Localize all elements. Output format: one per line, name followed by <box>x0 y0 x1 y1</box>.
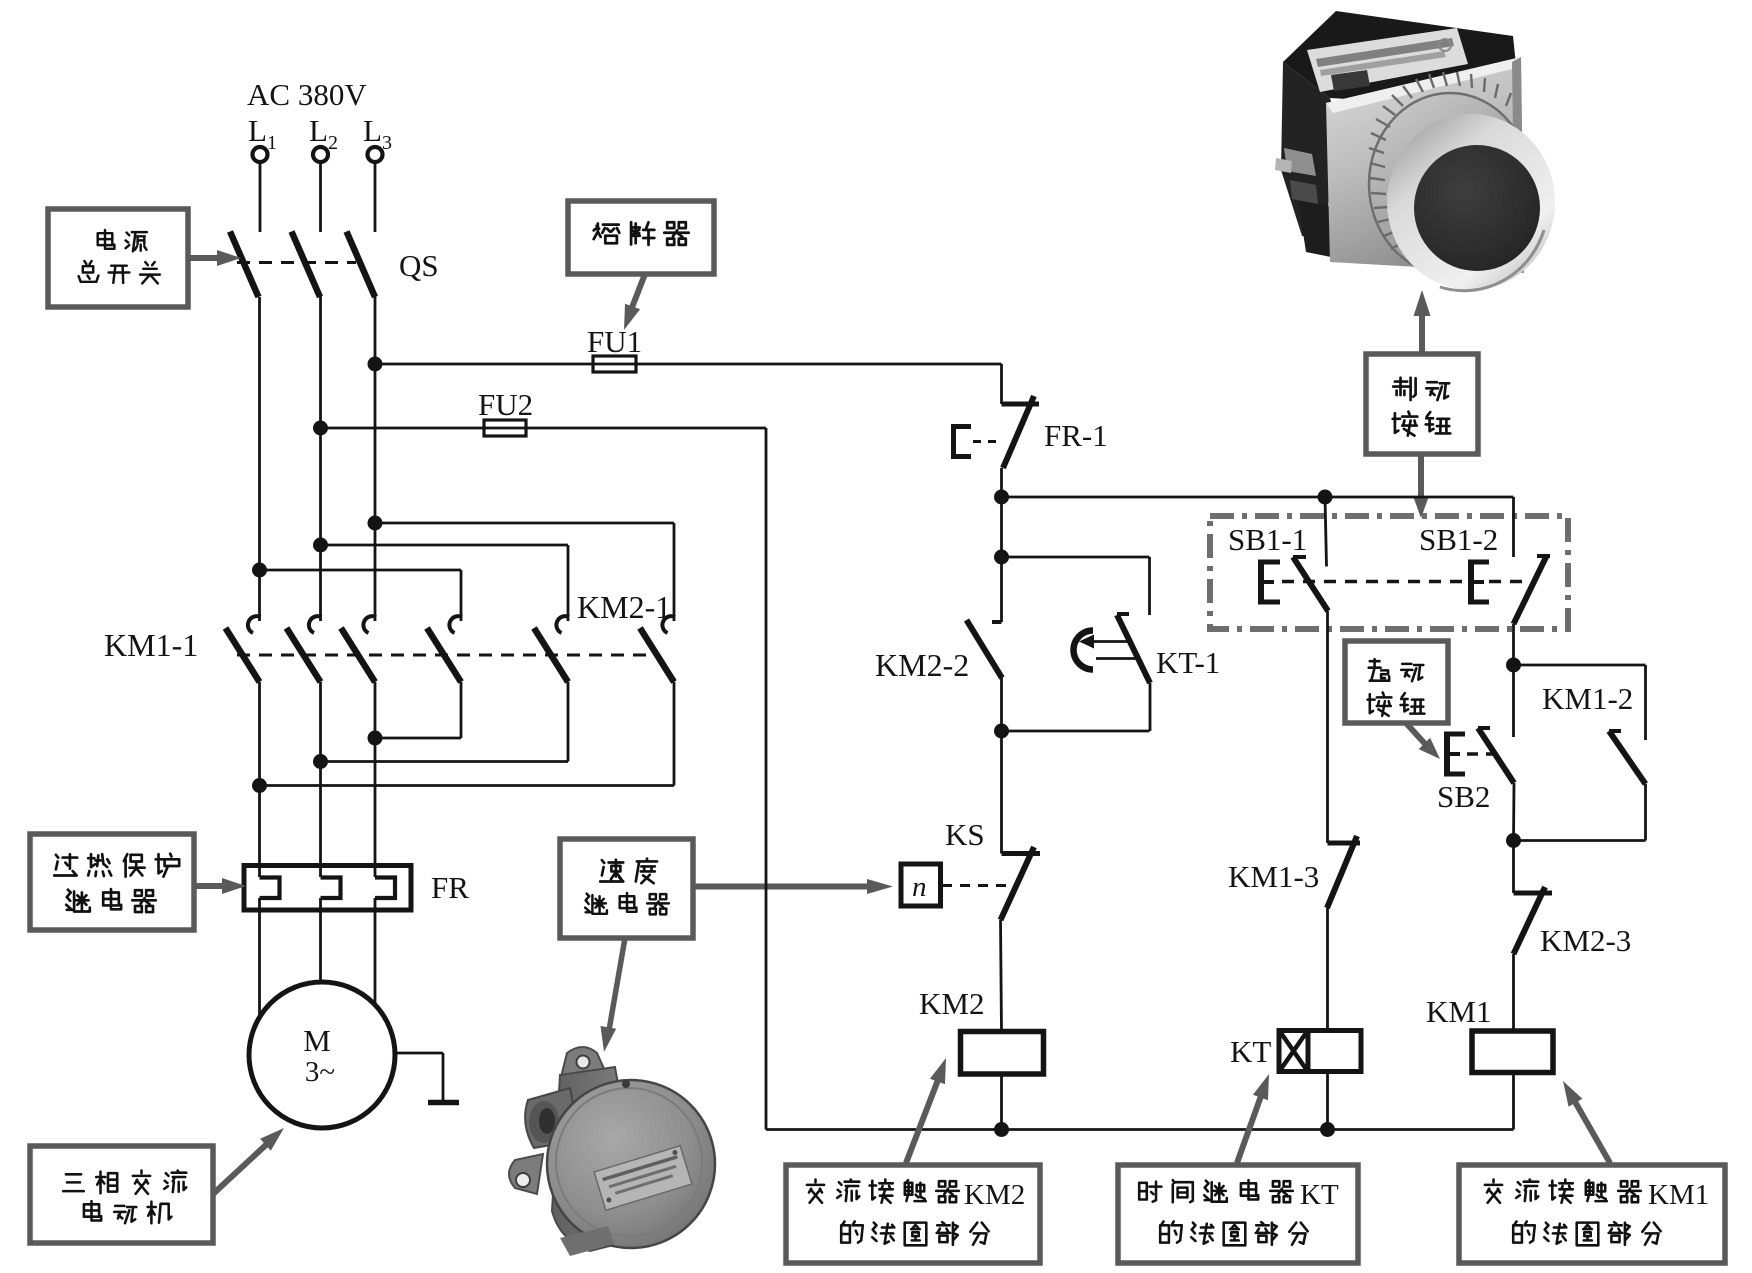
svg-text:n: n <box>912 871 927 903</box>
label box 制动按钮 (brake button) <box>1366 354 1478 454</box>
switch QS linkage dashed line <box>237 261 356 264</box>
wire L1 column KM1-1 to FR <box>258 682 261 866</box>
wire L3 column QS to KM1-1 <box>374 295 377 621</box>
junction KT-1 branch top <box>994 550 1009 565</box>
label box 熔断器 (fuse) <box>568 201 714 274</box>
svg-text:FR: FR <box>431 870 469 905</box>
contact SB1-2 (brake button NO) <box>1537 554 1550 558</box>
KS linkage dashes <box>942 884 1012 887</box>
wire KM1-3 to KT coil <box>1326 908 1329 1031</box>
svg-text:SB1-2: SB1-2 <box>1419 522 1498 557</box>
svg-text:KM2-3: KM2-3 <box>1540 923 1631 958</box>
wire FR-1 to node A <box>1000 468 1003 497</box>
svg-text:QS: QS <box>399 248 439 283</box>
FR-1 trip bracket <box>951 424 956 459</box>
wire SB1-1 to KM1-3 <box>1326 611 1329 843</box>
contact KT-1 (time relay, delayed) <box>1117 615 1150 683</box>
junction L3/FU1 <box>368 357 383 372</box>
wire L1 column QS to KM1-1 <box>258 297 261 621</box>
svg-text:3~: 3~ <box>305 1056 335 1088</box>
contact KM2-2 (NO) <box>992 620 1002 624</box>
svg-text:L: L <box>248 113 267 148</box>
wire L2 column KM1-1 to FR <box>319 682 322 866</box>
button SB1-2 cap symbol <box>1468 562 1474 602</box>
contactor contact KM1-1 pole 1 <box>248 616 261 633</box>
button SB1-1 cap symbol <box>1258 562 1264 602</box>
svg-text:M: M <box>303 1023 331 1058</box>
svg-text:FU1: FU1 <box>587 324 642 359</box>
thermal relay FR body <box>244 866 411 911</box>
terminal L2 <box>313 147 328 162</box>
wire KS to KM2 coil <box>1001 920 1002 1031</box>
label box 速度继电器 (speed relay) <box>560 839 693 938</box>
contact KM1-3 (NC interlock) <box>1328 841 1361 846</box>
SB2 linkage dashes <box>1467 752 1494 756</box>
switch QS pole 2 blade <box>292 232 321 298</box>
wire KM2-1 pole3 bottom crossover to L1 <box>673 682 676 786</box>
svg-text:L: L <box>363 113 382 148</box>
button SB2 cap symbol <box>1444 734 1450 774</box>
svg-text:KM1: KM1 <box>1648 1179 1709 1211</box>
svg-text:FR-1: FR-1 <box>1044 418 1108 453</box>
junction KT-1 branch bottom <box>994 724 1009 739</box>
wire L2 column QS to KM1-1 <box>319 296 322 621</box>
arrow from KT coil box to KT coil <box>1237 1096 1261 1163</box>
svg-text:KT: KT <box>1230 1034 1271 1069</box>
FR heater element 2 <box>319 866 322 877</box>
KM1-1 KM2-1 linkage dashed line <box>237 654 652 657</box>
svg-text:KM2-1: KM2-1 <box>577 589 671 625</box>
wire to KM2-3 <box>1512 841 1515 894</box>
svg-text:KM1-1: KM1-1 <box>104 627 198 663</box>
arrow from 起动按钮 box to SB2 <box>1406 723 1427 746</box>
switch QS pole 3 blade <box>347 232 376 298</box>
arrow from 三相交流电动机 box to motor <box>213 1143 268 1194</box>
label box 三相交流电动机 (three-phase AC motor) <box>30 1146 213 1243</box>
contactor contact KM2-1 pole 1 <box>449 616 462 633</box>
svg-text:L: L <box>309 113 328 148</box>
terminal L3 <box>368 147 383 162</box>
switch QS pole 1 blade <box>230 232 259 298</box>
junction KT branch on bottom bus <box>1320 1122 1335 1137</box>
wire KM2-3 to KM1 coil <box>1512 954 1515 1031</box>
wire SB1-2 to junction <box>1512 624 1515 665</box>
label box 起动按钮 (start button) <box>1345 641 1448 723</box>
wire KT-1 branch bottom link <box>1149 683 1152 731</box>
SB1 linkage dashed line <box>1282 580 1466 584</box>
wire KM1-2 branch bottom link <box>1644 784 1647 841</box>
contactor contact KM1-1 pole 3 <box>363 616 376 633</box>
wire FU2 feeder <box>321 427 767 430</box>
motor ground wire <box>395 1052 443 1055</box>
wire FR to motor phase L1 <box>258 910 261 1019</box>
arrow from 制动按钮 box up to push button photo <box>1419 314 1425 354</box>
junction KM2 branch on bottom bus <box>994 1122 1009 1137</box>
svg-text:KT-1: KT-1 <box>1156 645 1220 680</box>
wire KM1-2 branch top link <box>1514 664 1646 667</box>
svg-text:2: 2 <box>328 132 338 154</box>
FR heater element 3 <box>374 866 377 877</box>
svg-text:SB1-1: SB1-1 <box>1228 522 1307 557</box>
wire FR to motor phase L2 <box>319 910 322 983</box>
button SB1 linkage frame (dash-dot box) <box>1210 516 1568 629</box>
wire L3 to QS <box>374 162 377 232</box>
arrow from 制动按钮 box down to SB1 frame <box>1418 454 1424 500</box>
contact KM1-2 (NO self-hold) <box>1609 729 1621 733</box>
wire L3 column KM1-1 to FR <box>374 682 377 866</box>
junction L2/FU2 <box>313 421 328 436</box>
svg-text:KM1-3: KM1-3 <box>1228 859 1319 894</box>
terminal L1 <box>253 147 268 162</box>
svg-text:KM1: KM1 <box>1426 994 1491 1029</box>
arrow from KM1 coil box to KM1 coil <box>1574 1100 1610 1163</box>
junction SB2/KM1-2 top <box>1506 658 1521 673</box>
wire junction to SB2 <box>1512 665 1515 737</box>
wire KM2 coil to bottom bus <box>1000 1074 1003 1130</box>
coil KM2 <box>961 1032 1044 1075</box>
contact SB2 (start button NO) <box>1478 726 1490 730</box>
svg-text:KM2: KM2 <box>964 1179 1025 1211</box>
wire FU2 branch down to bottom bus <box>765 428 768 1130</box>
label box 过热保护继电器 (thermal protection relay) <box>30 834 194 930</box>
wire to KS contact <box>1000 731 1003 854</box>
arrow from 速度继电器 box down to speed relay photo <box>608 938 625 1036</box>
svg-text:KS: KS <box>945 817 985 852</box>
ground symbol <box>428 1100 459 1106</box>
fuse FU2 body <box>484 420 526 436</box>
wire KM1 coil to bottom bus <box>1512 1073 1515 1130</box>
node A junction <box>994 490 1009 505</box>
coil KT (time relay with delay element) <box>1279 1031 1361 1072</box>
wire control bus to SB1 branches <box>1002 496 1514 499</box>
wire KT coil to bottom bus <box>1326 1072 1329 1130</box>
svg-text:AC 380V: AC 380V <box>247 77 367 112</box>
wire FR to motor phase L3 <box>374 910 377 1007</box>
wire L2 to QS <box>319 162 322 232</box>
label box 交流接触器KM2的线圈部分 (KM2 coil) <box>786 1165 1040 1263</box>
svg-text:FU2: FU2 <box>478 387 533 422</box>
contactor contact KM1-1 pole 2 <box>309 616 322 633</box>
contact KM2-3 (NC interlock) <box>1514 891 1553 896</box>
contactor contact KM2-1 pole 3 <box>662 616 675 633</box>
wire SB2 to junction <box>1512 783 1515 841</box>
wire FU1 to FR-1 (control feed down) <box>1000 364 1003 404</box>
contact SB1-1 (stop button NC) <box>1293 555 1306 559</box>
wire KM2-2 to junction <box>1000 676 1003 731</box>
wire L1 to KM2-1 pole1 top <box>252 563 267 578</box>
label box 交流接触器KM1的线圈部分 (KM1 coil) <box>1459 1165 1725 1263</box>
bottom bus wire <box>766 1128 1514 1131</box>
arrow from 电源总开关 box to QS <box>188 255 222 261</box>
svg-text:KM2-2: KM2-2 <box>875 647 969 683</box>
wire L2 to KM2-1 pole2 top <box>313 538 328 553</box>
wire SB1-1 branch from bus <box>1325 497 1327 567</box>
FR heater element 1 <box>258 866 261 877</box>
contact KS (speed relay NC) <box>1002 851 1041 856</box>
arrow from 熔断器 box to FU1 <box>631 274 645 310</box>
label box 时间继电器KT的线圈部分 (KT coil) <box>1118 1165 1358 1263</box>
wire L3 to KM2-1 pole3 top <box>368 516 383 531</box>
wire FU1 feeder <box>375 363 1002 366</box>
wire KM2-1 pole2 bottom crossover to L2 <box>567 682 570 762</box>
contactor contact KM2-1 pole 2 <box>556 616 569 633</box>
arrow from KM2 coil box to KM2 coil <box>906 1080 938 1163</box>
wire node A down <box>1000 497 1003 622</box>
coil KM1 <box>1472 1031 1553 1073</box>
junction SB2/KM1-2 bottom <box>1506 833 1521 848</box>
speed relay photo <box>509 1047 715 1256</box>
contact FR-1 (thermal relay NC) <box>1002 402 1040 407</box>
push button photo <box>1275 11 1555 291</box>
wire down to SB1-2 <box>1512 497 1515 557</box>
wire KM2-1 pole1 bottom crossover to L3 <box>460 682 463 738</box>
svg-text:KM2: KM2 <box>919 986 984 1021</box>
label box 电源总开关 (power main switch) <box>48 209 188 307</box>
arrow from 过热保护继电器 box to FR <box>194 883 228 889</box>
speed sensor n box <box>901 864 941 906</box>
motor M circle <box>249 982 395 1128</box>
svg-text:KT: KT <box>1300 1179 1339 1211</box>
FR-1 linkage dashes <box>973 440 999 443</box>
svg-text:KM1-2: KM1-2 <box>1542 681 1633 716</box>
svg-text:SB2: SB2 <box>1437 779 1490 814</box>
junction SB1-1 branch <box>1318 490 1333 505</box>
fuse FU1 body <box>593 356 636 372</box>
wire L1 to QS <box>259 162 262 232</box>
wire KT-1 branch top link <box>1002 556 1150 559</box>
arrow from 速度继电器 box to KS n sensor <box>693 884 874 890</box>
